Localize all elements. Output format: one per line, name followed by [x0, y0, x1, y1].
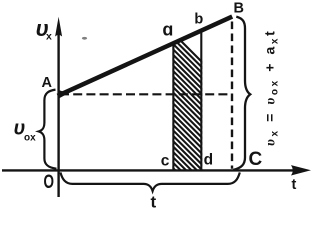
svg-text:d: d — [204, 152, 213, 169]
bottom brace for t — [60, 172, 239, 191]
y-axis shaft — [57, 30, 59, 197]
rotated equation v_x = v_ox + a_x t — [262, 29, 281, 146]
svg-text:υx = υox + axt: υx = υox + axt — [262, 29, 281, 146]
svg-text:t: t — [151, 193, 157, 209]
strip right border (d vertical) — [200, 30, 202, 171]
x-axis arrowhead — [291, 165, 311, 175]
x-axis shaft — [2, 169, 293, 171]
svg-text:O: O — [44, 171, 55, 193]
thick wedge where line meets axis at A — [58, 90, 69, 99]
svg-text:c: c — [161, 152, 170, 169]
svg-text:b: b — [194, 11, 203, 27]
left brace for v_ox — [39, 90, 57, 169]
svg-text:ɑ: ɑ — [162, 20, 173, 40]
scan speck — [82, 37, 87, 40]
strip left border (c vertical) — [172, 43, 174, 171]
dashed vertical line from B to C — [231, 22, 233, 169]
dashed horizontal line from A to C vertical — [60, 93, 232, 95]
svg-text:C: C — [249, 149, 263, 170]
svg-text:ox: ox — [24, 133, 36, 144]
svg-text:t: t — [292, 177, 297, 193]
svg-text:B: B — [234, 0, 244, 16]
svg-text:x: x — [46, 31, 52, 43]
sloped line A-B (v = v0 + a t) — [58, 17, 233, 96]
y-axis arrowhead — [55, 17, 62, 37]
svg-text:A: A — [42, 75, 53, 91]
right brace for v_x = v_ox + a_x t — [233, 17, 250, 170]
